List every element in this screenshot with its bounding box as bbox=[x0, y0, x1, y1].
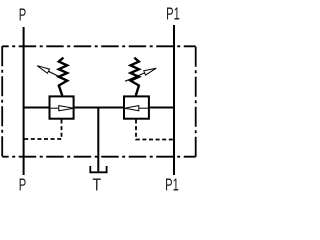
wire valve V2 to P1 bbox=[149, 107, 174, 109]
wire T junction vertical bbox=[97, 108, 99, 172]
valve V1 flow arrow (points right) bbox=[50, 106, 74, 111]
valve V2 flow arrow (points left) bbox=[125, 106, 149, 111]
relief valve V2 body bbox=[124, 96, 149, 118]
spring V1 bbox=[59, 58, 67, 96]
pilot line V2 (dashed, to P1) bbox=[136, 120, 174, 140]
adjustment arrow V2 bbox=[125, 68, 156, 81]
adjustment arrow V1 bbox=[37, 66, 68, 82]
tank symbol at T bbox=[90, 166, 106, 172]
port P line (left vertical) bbox=[23, 27, 25, 175]
svg-text:P: P bbox=[19, 175, 26, 195]
pilot line V1 (dashed, to P) bbox=[24, 120, 62, 140]
relief valve V1 body bbox=[50, 96, 74, 118]
port P1 line (right vertical) bbox=[173, 25, 175, 175]
spring V2 bbox=[131, 58, 139, 96]
wire P to valve V1 bbox=[24, 107, 50, 109]
enclosure boundary (dash-dot subplate box) bbox=[2, 46, 196, 156]
svg-text:P1: P1 bbox=[165, 175, 179, 195]
svg-text:P1: P1 bbox=[166, 4, 180, 24]
svg-text:T: T bbox=[92, 175, 101, 195]
svg-text:P: P bbox=[19, 5, 26, 25]
wire between valves bbox=[74, 107, 124, 109]
